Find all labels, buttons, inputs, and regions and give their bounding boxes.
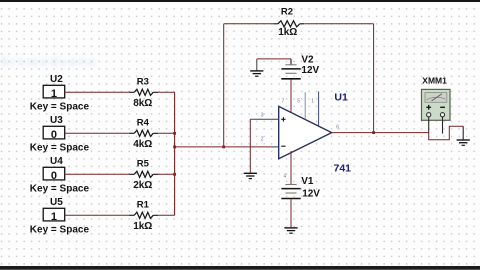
label U1	[334, 92, 348, 104]
svg-text:1: 1	[311, 98, 314, 104]
switch U5	[43, 208, 64, 223]
value 4kOhm	[133, 139, 152, 150]
battery V1	[281, 185, 300, 199]
label V1	[301, 176, 314, 187]
switch U3	[43, 126, 64, 141]
wire feedback top left	[224, 23, 274, 25]
svg-text:7: 7	[282, 98, 285, 104]
value R2 1kOhm	[278, 27, 297, 38]
svg-text:Key = Space: Key = Space	[30, 225, 90, 236]
multimeter XMM1 body	[422, 89, 451, 120]
label U2	[50, 74, 63, 85]
junction bus/R5	[173, 173, 176, 176]
value V2 12V	[301, 65, 319, 76]
label Key = Space (U2)	[30, 102, 90, 113]
top border bar	[0, 0, 480, 2]
wire ground stem (XMM1)	[462, 126, 464, 139]
op-amp pin 1 stub	[318, 91, 320, 125]
label XMM1	[422, 75, 447, 85]
value 8kOhm	[133, 98, 152, 109]
svg-text:U2: U2	[50, 74, 63, 85]
svg-text:U4: U4	[50, 156, 63, 167]
svg-text:R4: R4	[137, 117, 150, 128]
svg-text:1: 1	[51, 88, 57, 100]
wire U3 to R4	[65, 132, 131, 134]
svg-text:12V: 12V	[301, 65, 319, 76]
wire R3 to bus	[158, 91, 175, 93]
pin number 5	[297, 98, 300, 104]
wire R1 to bus	[158, 214, 175, 216]
wire U4 to R5	[65, 173, 131, 175]
wire bus to op-amp pin 2	[175, 146, 279, 148]
label V2	[301, 55, 314, 66]
svg-text:R5: R5	[137, 158, 150, 169]
label U4	[50, 156, 63, 167]
switch U4	[43, 167, 64, 182]
wire R5 to bus	[158, 173, 175, 175]
ground (V2)	[250, 71, 263, 76]
wire feedback left vertical	[223, 24, 225, 147]
svg-text:R2: R2	[281, 7, 293, 18]
wire XMM1 to ground loop	[429, 126, 464, 140]
label R1	[137, 199, 150, 210]
label U3	[50, 115, 63, 126]
svg-text:1kΩ: 1kΩ	[278, 27, 297, 38]
resistor R2	[274, 21, 305, 27]
svg-text:R3: R3	[137, 76, 149, 87]
op-amp U1 triangle	[279, 106, 332, 158]
battery V2	[281, 59, 300, 79]
wire ground stem (V2)	[256, 59, 258, 71]
svg-text:U3: U3	[50, 115, 63, 126]
label R3	[137, 76, 149, 87]
wire U5 to R1	[65, 214, 131, 216]
label U5	[50, 197, 63, 208]
op-amp pin 3 wire	[250, 118, 278, 120]
ground (V1)	[284, 228, 297, 233]
pin number 1	[311, 98, 314, 104]
svg-text:4: 4	[283, 173, 286, 179]
watermark	[0, 54, 97, 69]
switch U2	[43, 85, 64, 100]
wire U2 to R3	[65, 91, 131, 93]
resistor R4	[130, 130, 159, 136]
resistor R1	[130, 212, 159, 218]
svg-text:U5: U5	[50, 197, 63, 208]
label 741	[334, 162, 352, 174]
svg-text:XMM1: XMM1	[422, 75, 447, 85]
svg-text:0: 0	[51, 129, 57, 141]
bottom border bar	[0, 266, 480, 270]
op-amp pin 4 stem	[290, 151, 292, 185]
svg-text:2: 2	[261, 137, 264, 143]
junction feedback/output	[372, 131, 375, 134]
svg-text:3: 3	[261, 112, 264, 118]
pin number 3	[261, 112, 264, 118]
ground (op-amp +)	[244, 173, 257, 178]
wire pin3 to ground	[249, 119, 251, 173]
value 1kOhm	[133, 221, 152, 232]
svg-text:2kΩ: 2kΩ	[133, 180, 152, 191]
junction feedback/signal	[222, 146, 225, 149]
label Key = Space (U5)	[30, 225, 90, 236]
wire XMM1 + stub	[428, 117, 430, 133]
svg-text:Key = Space: Key = Space	[30, 102, 90, 113]
wire V1 to ground	[290, 199, 292, 228]
wire R4 to bus	[158, 132, 175, 134]
label Key = Space (U3)	[30, 143, 90, 154]
wire summing bus vertical	[174, 92, 176, 215]
junction bus/signal	[173, 146, 176, 149]
label R4	[137, 117, 150, 128]
junction bus/R4	[173, 132, 176, 135]
resistor R5	[130, 171, 159, 177]
svg-text:0: 0	[51, 170, 57, 182]
svg-text:V1: V1	[301, 176, 314, 187]
wire feedback top right	[304, 23, 373, 25]
pin number 2	[261, 137, 264, 143]
pin number 4	[283, 173, 286, 179]
op-amp pin 7 stem	[290, 79, 292, 113]
svg-text:V2: V2	[301, 55, 314, 66]
svg-text:6: 6	[336, 124, 339, 130]
ground (XMM1)	[457, 140, 470, 145]
resistor R3	[130, 89, 159, 95]
svg-text:12V: 12V	[302, 188, 320, 199]
svg-text:U1: U1	[334, 92, 348, 104]
label R2	[281, 7, 293, 18]
svg-text:1kΩ: 1kΩ	[133, 221, 152, 232]
svg-text:4kΩ: 4kΩ	[133, 139, 152, 150]
svg-text:1: 1	[51, 211, 57, 223]
pin number 7	[282, 98, 285, 104]
label Key = Space (U4)	[30, 184, 90, 195]
svg-text:8kΩ: 8kΩ	[133, 98, 152, 109]
wire op-amp output	[332, 132, 429, 134]
label R5	[137, 158, 150, 169]
value 2kOhm	[133, 180, 152, 191]
wire feedback right vertical	[373, 24, 375, 133]
value V1 12V	[302, 188, 320, 199]
pin number 6	[336, 124, 339, 130]
svg-text:Key = Space: Key = Space	[30, 184, 90, 195]
svg-text:741: 741	[334, 162, 352, 174]
svg-text:5: 5	[297, 98, 300, 104]
op-amp pin 5 stub	[304, 92, 306, 119]
wire XMM1 - stub	[442, 117, 444, 134]
wire V2 to ground	[257, 58, 291, 60]
svg-text:Key = Space: Key = Space	[30, 143, 90, 154]
svg-text:R1: R1	[137, 199, 150, 210]
